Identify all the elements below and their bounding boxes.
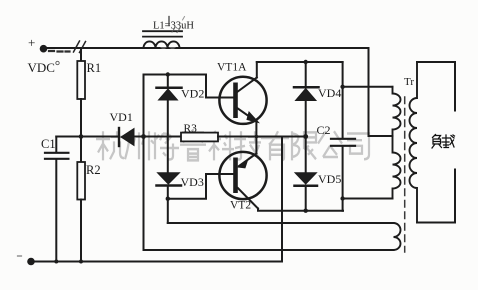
capacitor C1 [41,137,81,262]
svg-text:VD5: VD5 [318,172,341,186]
node emitter junction [255,135,259,139]
transistor VT1A [217,62,267,137]
transformer feedback winding [394,223,401,250]
wire smudge dashes after terminal [49,50,70,53]
svg-text:R2: R2 [86,163,101,177]
svg-text:VD4: VD4 [318,86,341,100]
wire bottom negative rail [31,261,282,263]
watermark [96,129,369,160]
svg-text:Tr: Tr [404,76,414,88]
node R2 bottom junction [79,260,83,264]
capacitor C2 [317,62,356,211]
wire top positive rail [44,47,369,49]
wire top rail corner to primary mid [369,48,393,136]
diode VD5 [295,137,342,211]
hatch mark at R1 junction [74,41,86,53]
node C2 to primary bottom junction [340,196,344,200]
resistor R2 [77,137,100,262]
node positive input terminal [40,45,48,53]
wire primary top feed [343,86,393,88]
svg-text:VT1A: VT1A [217,62,247,74]
load connection frame [417,62,455,223]
svg-text:+: + [28,35,35,50]
wire feedback winding top [168,222,394,224]
wire primary bottom to C2 [343,198,393,200]
wire VD2 top rail to VT1A base [144,75,234,98]
resistor R3 [144,123,306,141]
inductor L1 [143,17,194,49]
node VT2 base tap on VD3 column [166,197,170,201]
svg-text:R1: R1 [87,61,102,75]
diode VD3 [157,173,204,223]
load label [432,135,455,149]
wire feedback winding bottom [144,249,394,251]
svg-text:C2: C2 [317,123,331,137]
svg-text:R3: R3 [184,123,198,135]
svg-text:VD2: VD2 [181,87,204,101]
resistor R1 [77,48,101,137]
node C1 bottom junction [54,260,58,264]
wire bridge collector top rail [257,61,343,63]
node junction R1 R2 C1 VD1 [79,134,84,139]
diode VD2 [157,75,205,173]
diode VD1 [81,110,144,146]
node diode mid rail junction [303,134,308,139]
diode VD4 [294,62,341,137]
node C2 to primary top junction [340,85,344,89]
svg-text:VDC: VDC [28,60,55,75]
transformer core [404,97,406,252]
node VD5 bottom junction [304,209,308,213]
svg-text:VD1: VD1 [110,110,133,124]
node VD2 top junction [166,72,170,76]
transformer Tr secondary winding [410,62,417,223]
node negative input terminal [27,258,35,266]
wire left bridge column [143,75,145,251]
wire VT2 base connection [168,174,233,199]
wire bridge collector bottom rail [258,209,343,211]
svg-text:VD3: VD3 [181,175,204,189]
transformer Tr primary winding [393,76,415,199]
svg-text:C1: C1 [41,137,56,151]
node VD4 top junction [304,60,308,64]
node VD1 left-column junction [141,134,146,139]
wire emitter rail to bottom rail [281,137,283,262]
transistor VT2 [219,137,266,212]
svg-text:VT2: VT2 [230,200,251,212]
